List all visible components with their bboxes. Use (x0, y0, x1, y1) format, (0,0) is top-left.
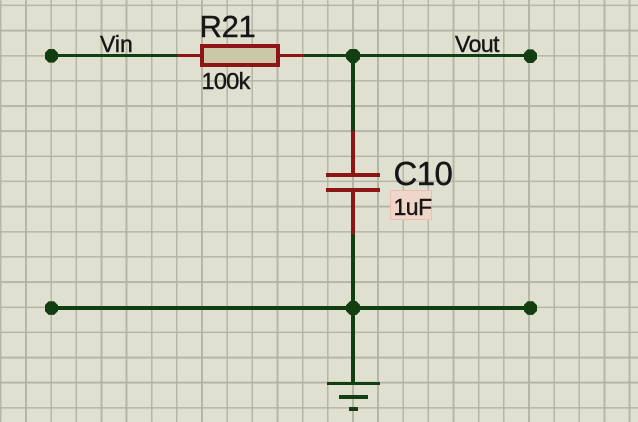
node: Vin terminal dot (45, 49, 59, 63)
label Vin (100, 31, 133, 58)
wire: resistor R21 right pin stub (red) (279, 54, 305, 57)
ground symbol bar 3 (bottom, smallest) (349, 407, 357, 411)
wire: vertical green segment from top junction down to capacitor pin (351, 56, 355, 132)
node: Vout terminal dot (524, 49, 538, 63)
node: bottom left terminal dot (45, 301, 59, 315)
wire: bottom net green horizontal (51, 306, 531, 309)
node: bottom right terminal dot (524, 301, 538, 315)
capacitor C10 top plate (326, 173, 380, 177)
node: bottom junction dot at capacitor branch (346, 301, 360, 315)
label C10 (394, 155, 453, 193)
ground symbol bar 2 (middle) (339, 395, 368, 399)
wire: resistor R21 left pin stub (red) (177, 54, 202, 57)
label Vout (455, 31, 499, 58)
ground symbol bar 1 (top, widest) (327, 382, 380, 386)
node: top junction dot at capacitor branch (346, 49, 360, 63)
capacitor C10 bottom plate (326, 188, 380, 193)
wire: vertical green segment from capacitor to bottom net (351, 234, 355, 308)
wire: capacitor C10 bottom pin lead (red) (351, 192, 355, 234)
wire: vertical green segment from bottom net down to ground (351, 308, 355, 382)
wire: top net Vin, green segment from left node to resistor pin (51, 54, 177, 57)
label R21 (200, 9, 256, 45)
resistor R21 body (200, 44, 280, 67)
wire: top net green segment from resistor to Vout node (304, 54, 531, 57)
label 100k (202, 68, 250, 95)
label 1uF with selection highlight (390, 190, 433, 221)
wire: capacitor C10 top pin lead (red) (351, 131, 355, 173)
